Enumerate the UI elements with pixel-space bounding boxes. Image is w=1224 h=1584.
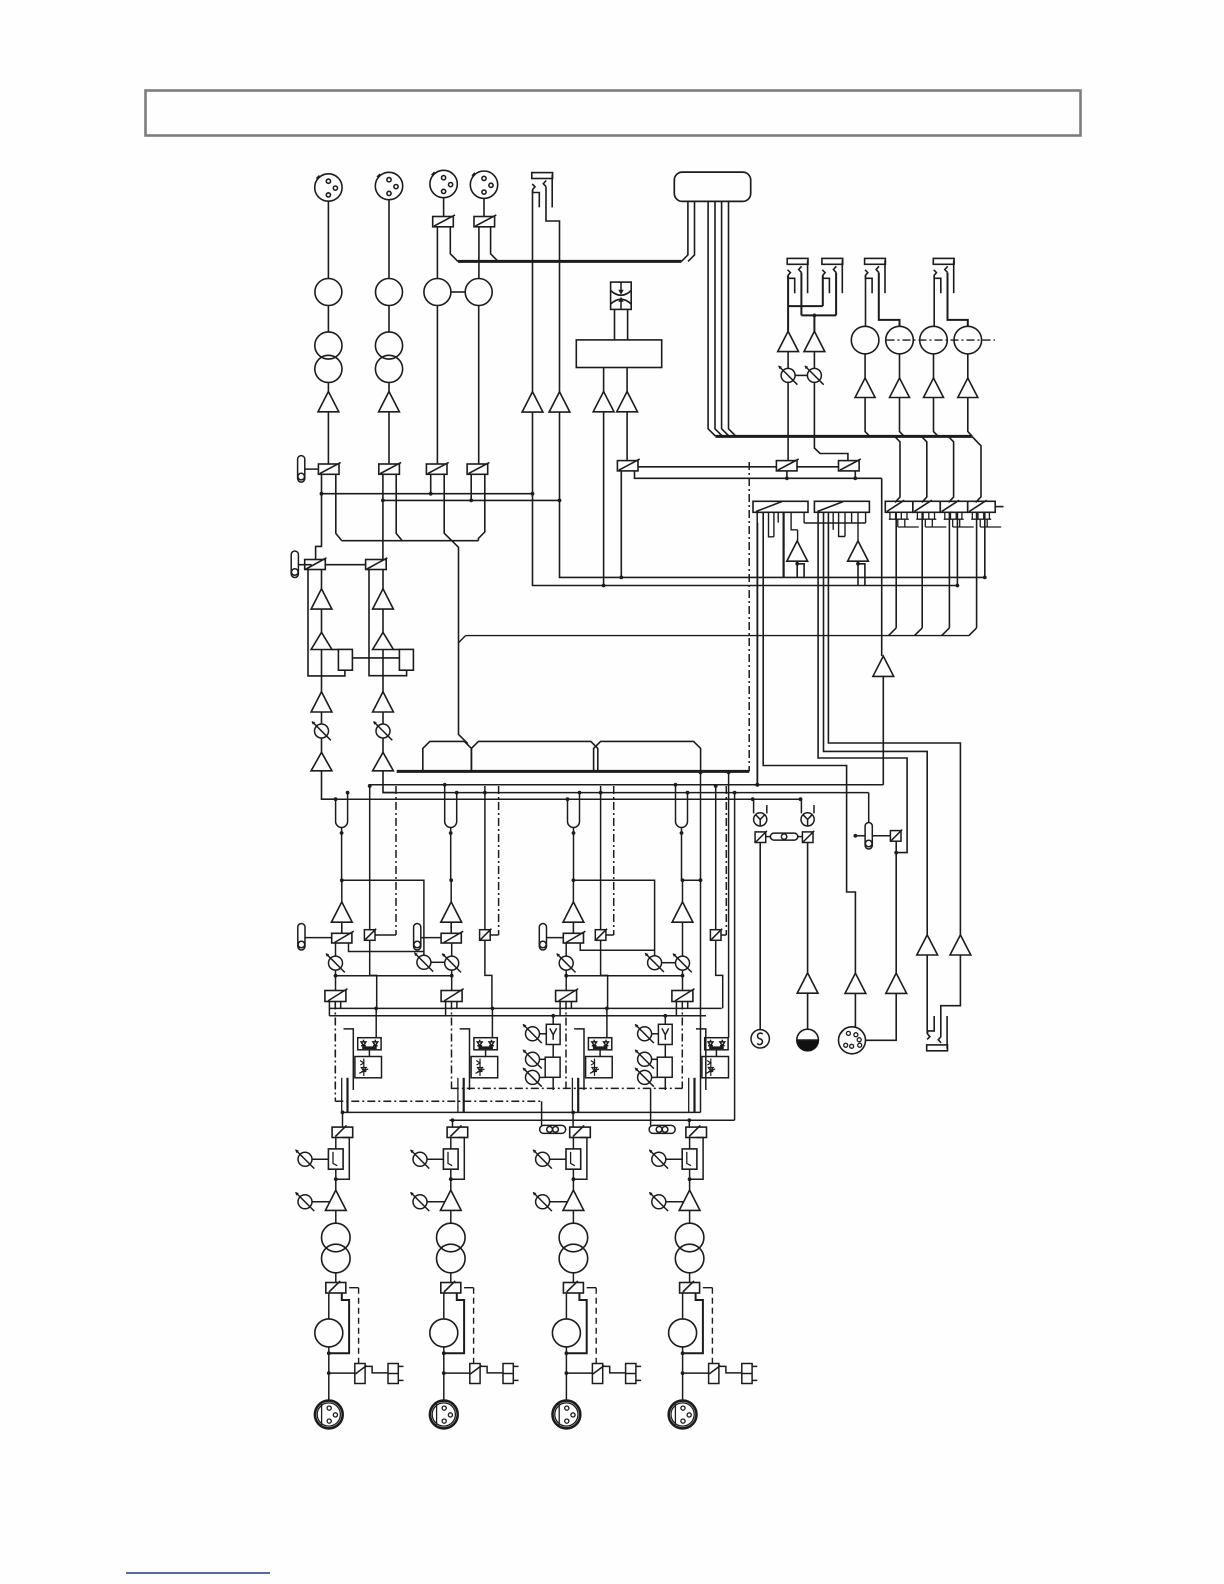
ch2 limiter limiter diodes <box>474 1038 497 1050</box>
ch2 limiter limiter control <box>471 1057 498 1078</box>
wire <box>681 201 688 261</box>
gang dash line <box>887 339 996 341</box>
ch3 switch <box>563 933 583 943</box>
ch2 square feed <box>484 786 486 930</box>
ch1 amplifier <box>331 902 352 922</box>
monitor stack B wire <box>652 1058 658 1060</box>
out ch2 output transformer <box>437 1223 466 1252</box>
wire <box>800 273 802 316</box>
insert ch1 socket <box>336 816 348 828</box>
monitor amplifier AB2 <box>857 512 859 541</box>
ch3 send pot <box>556 953 575 972</box>
bus R <box>322 798 801 800</box>
wire <box>603 368 605 392</box>
wire <box>382 738 384 752</box>
monitor stack A wire <box>540 1058 546 1060</box>
wire <box>766 836 771 838</box>
out ch4 wire <box>683 1372 709 1374</box>
amplifier A1 <box>318 392 339 412</box>
monitor stack A wire <box>552 1045 554 1058</box>
ch4 square out <box>716 940 723 1008</box>
out ch3 wire <box>566 1372 592 1374</box>
wire <box>972 436 981 502</box>
ch2 switch <box>441 933 461 943</box>
amplifier AR4 <box>958 378 978 398</box>
dash bus 2 <box>334 1002 336 1102</box>
pill feed ch3 <box>541 1101 543 1125</box>
wire <box>881 478 883 656</box>
wire <box>450 227 458 262</box>
wire <box>614 309 616 340</box>
amplifier A1d <box>311 692 332 712</box>
bus thick <box>458 260 682 263</box>
studio amplifier <box>845 973 866 993</box>
connector XLR input 1 <box>315 174 342 201</box>
monitor stack B wire <box>664 1077 666 1090</box>
wire <box>327 201 329 279</box>
out ch3 wire <box>572 1273 574 1283</box>
monitor fader <box>865 823 872 850</box>
ch1 wire <box>335 970 337 990</box>
wire <box>864 354 866 378</box>
out ch1 dash drop <box>349 1287 359 1289</box>
wire <box>560 412 985 577</box>
bank long pin <box>976 512 978 628</box>
wire <box>968 398 973 437</box>
insert ch3 right wire <box>579 793 581 816</box>
ch3 junction line <box>573 880 654 955</box>
ch4 wire <box>682 922 684 956</box>
wire <box>321 712 323 724</box>
out ch3 wire <box>565 1293 567 1319</box>
ch3 square feed <box>600 786 602 930</box>
ch3 box tap <box>580 943 654 950</box>
out ch1 meter <box>315 1319 343 1347</box>
ch3 wire <box>565 943 567 956</box>
out ch1 terminal <box>388 1364 404 1384</box>
out ch3 wire <box>572 1169 574 1190</box>
wire <box>722 201 729 436</box>
wire <box>627 309 629 340</box>
wire <box>895 841 897 973</box>
ch2 dash rail <box>498 786 500 935</box>
gain pot input 3 <box>424 279 451 306</box>
level pot AO1 <box>778 366 797 385</box>
dash bus 1 <box>451 1087 683 1089</box>
monitor stack B pot 1 <box>635 1024 654 1043</box>
out ch1 wire <box>328 1293 330 1319</box>
out ch2 link <box>480 1366 503 1373</box>
wire <box>814 382 848 460</box>
wire <box>431 961 445 963</box>
wire <box>342 540 479 542</box>
connector block (multipin) <box>674 172 750 201</box>
ch2 send pot <box>442 953 461 972</box>
out ch1 wire <box>328 1347 330 1401</box>
bank B2 box <box>814 501 869 512</box>
out ch2 wire <box>450 1138 452 1149</box>
ch4 limiter dash drop <box>681 1002 683 1089</box>
amplifier AR3 <box>924 378 944 398</box>
wire <box>807 843 809 973</box>
wire <box>325 564 365 566</box>
wire <box>969 628 977 636</box>
wire <box>855 835 865 837</box>
ch1 limiter out wire <box>341 1078 343 1113</box>
wire <box>459 636 466 643</box>
amplifier A2e <box>373 752 394 771</box>
amplifier A-J1r <box>549 392 570 412</box>
out ch4 fader pot <box>649 1149 668 1168</box>
wire <box>546 187 560 392</box>
out ch2 select switch <box>447 1127 468 1137</box>
ch1 limiter wire <box>328 1002 330 1016</box>
ch2 pre switch <box>480 929 492 941</box>
out ch3 dash drop <box>587 1287 597 1289</box>
wire <box>715 201 722 436</box>
out ch2 wire <box>450 1273 452 1283</box>
gain pot input 1 <box>315 279 342 306</box>
out ch4 amp pot <box>649 1192 668 1211</box>
out ch1 wire <box>312 1158 328 1160</box>
wire <box>321 570 323 589</box>
amplifier AR1 <box>855 378 875 398</box>
level pot AO2 <box>805 366 824 385</box>
meter amplifier block <box>576 340 661 368</box>
wire <box>336 975 452 977</box>
insert ch4 left wire <box>675 785 677 816</box>
ch3 switch 2 <box>556 991 577 1002</box>
wire <box>967 354 969 378</box>
wire <box>327 383 329 392</box>
ch4 pre switch <box>710 929 722 941</box>
out ch3 wire <box>565 1347 567 1401</box>
ch2 wire <box>421 937 441 939</box>
ch2 wire <box>451 943 453 956</box>
ch2 limiter wire <box>445 1002 447 1016</box>
ch3 limiter out wire <box>571 1078 573 1113</box>
wire <box>436 306 438 465</box>
ch4 limiter out wire <box>688 1078 690 1113</box>
monitor stack B pot 2 <box>635 1049 654 1068</box>
out ch4 wire <box>689 1210 691 1223</box>
osc switch <box>755 831 767 843</box>
wire <box>369 570 407 676</box>
gain pot input 4 <box>465 279 492 306</box>
link K4 <box>828 512 960 935</box>
talkback amplifier <box>797 973 818 993</box>
out ch1 out switch <box>326 1283 346 1294</box>
wire <box>899 354 901 378</box>
wire <box>566 975 682 977</box>
amplifier A2d <box>373 692 394 712</box>
ch1 feed <box>341 880 343 902</box>
output bus L <box>342 1111 701 1113</box>
insert ch1 tap <box>341 828 343 881</box>
wire <box>865 398 870 437</box>
bus amp riser <box>882 676 884 784</box>
wire <box>948 436 953 502</box>
ch1 wire <box>305 937 332 939</box>
trim pot ch1 <box>312 721 331 740</box>
out ch4 wire <box>666 1158 682 1160</box>
out ch4 connector XLR output <box>669 1401 697 1429</box>
out ch3 fader box <box>566 1149 581 1169</box>
output bus R <box>449 1119 734 1121</box>
ch4 limiter wire <box>687 1002 689 1009</box>
out ch3 amp pot <box>533 1192 552 1211</box>
title box (empty) <box>146 91 1081 136</box>
connector jack J1 line input <box>532 173 553 208</box>
out ch1 select switch <box>332 1127 353 1137</box>
switch S3a <box>426 462 448 474</box>
amplifier A2 <box>379 392 400 412</box>
bank B3 pins <box>889 512 891 519</box>
ch4 limiter feed <box>728 772 730 1037</box>
ch4 dash rail <box>725 786 727 935</box>
out ch2 meter bypass <box>444 1293 464 1353</box>
bus line <box>383 499 560 501</box>
wire <box>478 306 480 465</box>
bus line y636 <box>466 635 969 637</box>
wire <box>835 273 837 316</box>
send bus B <box>329 1015 706 1017</box>
amplifier A2b <box>373 589 394 609</box>
out ch2 wire <box>443 1347 445 1401</box>
monitor switch H2 <box>890 830 902 842</box>
amplifier A1e <box>311 752 332 771</box>
ch1 limiter wire <box>340 1002 342 1009</box>
out ch4 bypass <box>690 1138 704 1180</box>
out ch4 gang link <box>649 1125 675 1133</box>
ch4 limiter out wire 2 <box>693 1078 695 1113</box>
link K1 <box>763 512 855 973</box>
out ch1 meter bypass <box>329 1293 349 1353</box>
wire <box>797 564 804 578</box>
out ch1 link <box>365 1366 388 1373</box>
wire <box>729 201 736 436</box>
lamp <box>770 833 797 840</box>
wire <box>662 962 676 964</box>
switch SG <box>839 459 861 471</box>
wire jack C ring <box>879 273 900 327</box>
monitor stack A wire <box>552 1016 554 1025</box>
out ch2 amp pot <box>410 1192 429 1211</box>
wire <box>788 305 823 307</box>
wire <box>638 466 776 468</box>
ch1 square feed <box>369 786 371 930</box>
wire <box>483 198 485 217</box>
bank B6 right stub <box>995 506 1003 508</box>
ch3 dash rail <box>613 786 615 935</box>
ch1 limiter out wire 2 <box>346 1078 348 1113</box>
ch1 wire <box>341 922 343 933</box>
out ch4 select switch <box>686 1127 707 1137</box>
bank B6 pins <box>971 512 973 519</box>
bank B5 <box>940 501 968 512</box>
meter switch symbol <box>611 282 632 309</box>
bus thick <box>715 435 972 438</box>
out ch3 line amplifier <box>563 1190 584 1210</box>
ch3 limiter wire <box>606 1008 608 1037</box>
out ch4 wire <box>689 1273 691 1283</box>
switch S1a <box>318 462 340 474</box>
out ch1 wire <box>329 1372 355 1374</box>
wire <box>430 474 432 493</box>
ch1 limiter loop wire <box>344 1029 354 1090</box>
out ch4 terminal <box>742 1364 758 1384</box>
phones amplifier P2 <box>950 935 971 955</box>
out ch3 connector XLR output <box>553 1401 581 1429</box>
bank long pin <box>921 512 923 628</box>
monitor stack A pot 3 <box>523 1068 542 1087</box>
bank pin to bus <box>984 512 986 577</box>
out ch1 fader pot <box>295 1149 314 1168</box>
out ch1 tb switch <box>355 1364 367 1384</box>
wire <box>900 398 905 437</box>
footer rule <box>126 1572 270 1574</box>
out ch1 wire <box>335 1169 337 1190</box>
ch3 limiter limiter control <box>586 1057 613 1078</box>
wire <box>533 412 958 585</box>
wire <box>478 227 480 279</box>
ch1 limiter wire <box>368 1050 370 1057</box>
ch1 pre switch <box>364 929 376 941</box>
monitor stack A wire <box>540 1076 546 1078</box>
out ch1 output transformer <box>322 1223 351 1252</box>
bank B5 pins <box>944 512 946 519</box>
ch4 send pot <box>673 953 692 972</box>
ch1 limiter dash drop <box>334 1002 336 1089</box>
connector XLR input 2 <box>375 172 402 199</box>
ch1 send pot <box>326 953 345 972</box>
out ch1 connector XLR output <box>315 1401 343 1429</box>
out ch2 terminal <box>503 1364 519 1384</box>
out ch2 dash drop <box>464 1287 474 1289</box>
out ch1 line amplifier <box>325 1190 346 1210</box>
wire <box>926 955 928 1034</box>
ch4 limiter loop wire <box>696 1029 706 1090</box>
connector XLR input 4 <box>470 171 497 198</box>
connector jack out D <box>933 258 954 293</box>
bank B6 <box>968 501 996 512</box>
out ch4 wire <box>682 1293 684 1319</box>
wire <box>451 291 465 293</box>
bank B3 <box>885 501 913 512</box>
out ch4 out switch <box>680 1283 700 1294</box>
wire <box>895 436 900 502</box>
wire <box>933 354 935 378</box>
wire <box>393 649 399 651</box>
wire <box>858 564 865 586</box>
wire <box>795 374 807 376</box>
ch3 wire <box>572 922 574 933</box>
dash bus 2b <box>335 1100 541 1102</box>
ch1 limiter limiter control <box>355 1057 382 1078</box>
out ch2 bypass <box>451 1138 465 1180</box>
monitor stack B pot 3 <box>635 1068 654 1087</box>
monitor stack B gain box <box>657 1057 672 1077</box>
wire <box>532 190 534 392</box>
ch2 limiter loop wire <box>460 1029 470 1090</box>
wire <box>321 609 323 632</box>
ch1 box tap <box>349 943 424 952</box>
pill feed ch4 <box>650 1088 652 1125</box>
ch3 amplifier <box>563 902 584 922</box>
out ch3 wire <box>550 1201 568 1203</box>
out ch4 tb switch <box>709 1364 721 1384</box>
wire <box>801 314 836 316</box>
bus booster amplifier <box>873 656 894 676</box>
wire <box>396 474 402 540</box>
insert ch2 socket <box>445 816 457 828</box>
connector XLR input 3 <box>430 170 457 197</box>
amplifier AR2 <box>890 378 910 398</box>
bus tap <box>751 797 755 801</box>
out ch2 line amplifier <box>440 1190 461 1210</box>
ch1 wire <box>375 934 396 936</box>
oscillator <box>751 1030 769 1048</box>
insert ch3 socket <box>568 816 580 828</box>
bus L <box>369 784 884 786</box>
out ch3 out switch <box>563 1283 583 1294</box>
wire <box>942 628 950 636</box>
out ch1 wire <box>335 1273 337 1283</box>
connector DIN socket <box>839 1027 866 1054</box>
insert ch2 tap <box>450 828 452 881</box>
talkback switch <box>802 831 814 843</box>
out ch3 meter <box>552 1319 580 1347</box>
bank B4 pins <box>916 512 918 519</box>
main bus thick <box>397 770 750 773</box>
wire <box>316 474 322 559</box>
aux pot pair2 <box>645 953 664 972</box>
out ch4 dash drop <box>703 1287 713 1289</box>
DIN amplifier <box>886 973 907 993</box>
switch SF <box>776 459 798 471</box>
wire <box>388 383 390 392</box>
bus line <box>322 493 534 495</box>
wire <box>382 570 384 589</box>
ch1 square out <box>370 940 377 1008</box>
out ch4 meter <box>669 1319 697 1347</box>
out ch2 wire <box>427 1201 445 1203</box>
out ch3 bypass <box>573 1138 587 1180</box>
out ch1 wire <box>312 1201 330 1203</box>
bank B2 pins <box>832 512 834 530</box>
switch S4a <box>467 462 489 474</box>
out ch4 link <box>719 1366 742 1373</box>
out ch1 fader box <box>328 1149 343 1169</box>
wire <box>388 412 390 464</box>
out ch2 fader pot <box>410 1149 429 1168</box>
ch1 junction line <box>342 880 424 955</box>
wire jack D tip <box>933 276 935 327</box>
ch4 limiter limiter diodes <box>705 1038 728 1050</box>
out ch2 wire <box>427 1158 443 1160</box>
wire <box>436 227 438 279</box>
wire <box>382 712 384 724</box>
gain pot input 2 <box>376 279 403 306</box>
gain select R1 <box>338 649 352 670</box>
ch3 limiter dash drop <box>565 1002 567 1089</box>
wire <box>787 352 789 369</box>
monitor stack A wire <box>552 1077 554 1090</box>
monitor stack B wire <box>664 1045 666 1058</box>
ch2 limiter out wire <box>457 1078 459 1113</box>
wire <box>688 201 695 261</box>
ch2 wire <box>490 934 498 936</box>
